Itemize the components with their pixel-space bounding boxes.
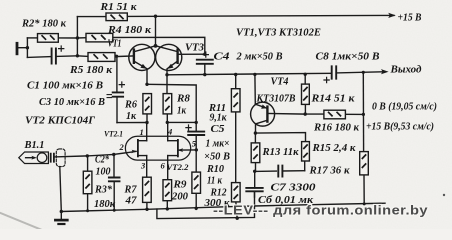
svg-text:R8: R8 [176,93,191,105]
svg-text:R16 180 к: R16 180 к [313,122,359,134]
svg-text:R15 2,4 к: R15 2,4 к [312,142,356,154]
svg-text:VT4: VT4 [271,76,289,88]
svg-text:С1 100 мк×16 В: С1 100 мк×16 В [27,80,103,92]
svg-text:VT2.2: VT2.2 [167,162,190,172]
svg-text:С4: С4 [214,51,231,63]
svg-text:100: 100 [96,166,111,178]
svg-text:R9: R9 [172,179,187,191]
svg-text:R1 51 к: R1 51 к [99,1,136,13]
svg-text:2 мк×50 В: 2 мк×50 В [236,51,283,63]
svg-text:С8 1мк×50 В: С8 1мк×50 В [316,51,380,63]
svg-text:1: 1 [140,127,144,137]
svg-text:С5: С5 [211,123,226,135]
svg-text:0 В (19,05 см/с): 0 В (19,05 см/с) [372,101,437,113]
svg-text:180к: 180к [94,198,115,210]
svg-text:+15 В: +15 В [398,12,422,24]
svg-text:VT2.1: VT2.1 [104,129,123,139]
svg-text:2: 2 [119,142,125,152]
svg-text:R5 180 к: R5 180 к [69,64,112,76]
svg-text:R13 11к: R13 11к [262,146,299,158]
svg-text:×50 В: ×50 В [204,151,230,163]
svg-text:R10: R10 [206,163,224,175]
svg-text:--LEV--- для forum.onliner.by: --LEV--- для forum.onliner.by [213,203,428,218]
svg-text:КТ3107В: КТ3107В [256,93,296,105]
svg-text:R14 51 к: R14 51 к [310,93,355,105]
svg-text:R17 36 к: R17 36 к [309,165,350,177]
svg-text:R2* 180 к: R2* 180 к [21,18,66,30]
svg-text:9,1к: 9,1к [210,112,227,124]
svg-text:+15 В(9,53 см/с): +15 В(9,53 см/с) [366,121,434,133]
svg-text:5: 5 [192,139,197,149]
svg-text:С3 10 мк×16 В: С3 10 мк×16 В [39,96,105,108]
svg-text:С2*: С2* [95,154,109,166]
svg-text:Выход: Выход [390,64,423,76]
svg-text:В1.1: В1.1 [24,139,45,151]
svg-text:С7 3300: С7 3300 [271,182,317,194]
svg-text:200: 200 [171,191,188,203]
svg-text:11 к: 11 к [207,175,222,187]
svg-text:VT3: VT3 [185,42,204,54]
svg-text:VT2 КПС104Г: VT2 КПС104Г [25,115,95,127]
svg-text:1к: 1к [177,105,186,117]
svg-text:4: 4 [167,127,172,137]
svg-text:1к: 1к [126,110,136,122]
svg-text:1 мк×: 1 мк× [206,138,230,150]
svg-text:VT1,VT3 КТ3102Е: VT1,VT3 КТ3102Е [236,27,321,39]
svg-text:VT1: VT1 [108,38,122,50]
svg-text:3: 3 [140,161,146,171]
svg-text:47: 47 [125,195,138,207]
svg-text:R3*: R3* [94,184,112,196]
svg-text:R6: R6 [124,99,137,111]
svg-text:R4 180 к: R4 180 к [107,24,152,36]
